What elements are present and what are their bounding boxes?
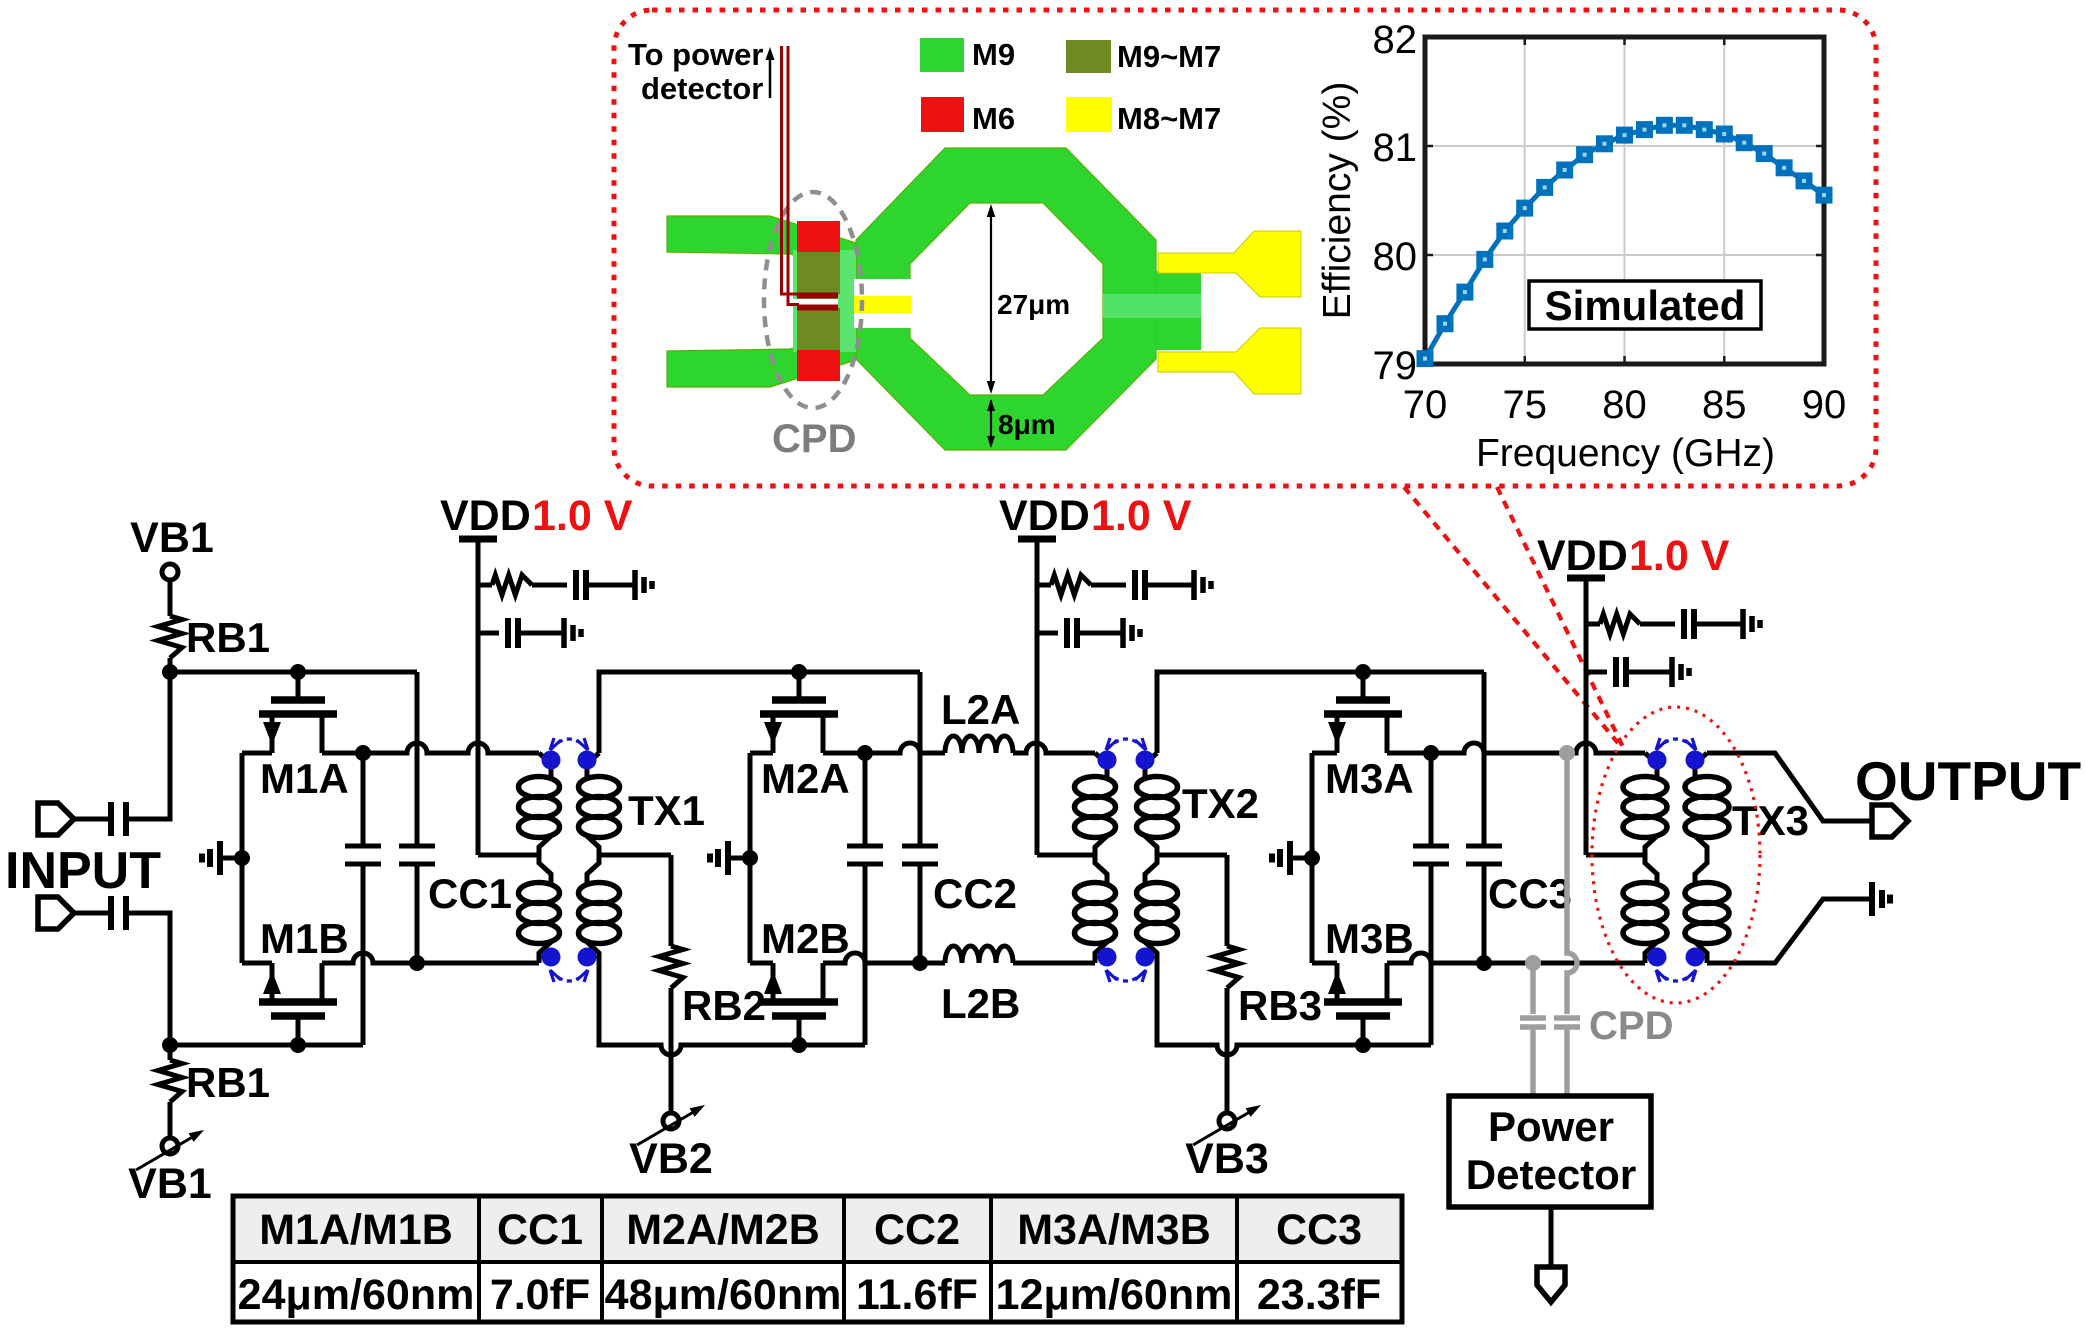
power detector box	[1449, 1096, 1651, 1207]
ground TX1 secondary bias	[730, 856, 750, 861]
node gate rail stage1 top	[162, 664, 178, 680]
svg-text:detector: detector	[641, 71, 763, 106]
svg-text:23.3fF: 23.3fF	[1257, 1271, 1381, 1319]
wire RB1 bottom to VB1	[168, 1102, 173, 1138]
layout green feed arm upper	[667, 216, 856, 296]
svg-text:90: 90	[1802, 383, 1847, 427]
port VB1 top circle	[162, 564, 178, 580]
svg-text:CPD: CPD	[772, 417, 856, 461]
wire L2A to TX2 primary	[1013, 743, 1095, 753]
resistor RB1 bottom	[158, 1060, 182, 1102]
wire source bus	[240, 753, 245, 963]
svg-text:70: 70	[1403, 383, 1448, 427]
port VB3 variable	[1219, 1113, 1235, 1129]
svg-text:M3A/M3B: M3A/M3B	[1017, 1206, 1211, 1254]
svg-text:12μm/60nm: 12μm/60nm	[996, 1271, 1233, 1319]
legend M8~M7 swatch	[1066, 97, 1112, 132]
wire TX2 secondary center tap	[1157, 853, 1227, 858]
wire VDD3 to TX3 center tap	[1584, 672, 1589, 855]
svg-text:48μm/60nm: 48μm/60nm	[605, 1271, 842, 1319]
plot gridlines	[1524, 37, 1526, 364]
node drain rail CC1 right bottom	[416, 671, 418, 673]
resistor RB1 top	[158, 616, 182, 658]
svg-text:Detector: Detector	[1466, 1151, 1636, 1198]
inductor L2B	[945, 946, 1013, 963]
svg-text:27μm: 27μm	[997, 289, 1070, 320]
svg-text:1.0 V: 1.0 V	[532, 492, 633, 540]
dimension arrow 8um	[990, 396, 992, 446]
port input plus	[38, 803, 74, 835]
svg-text:INPUT: INPUT	[5, 842, 161, 900]
wire TX3 secondary top to output port	[1707, 753, 1872, 821]
svg-text:1.0 V: 1.0 V	[1629, 532, 1730, 580]
transformer TX2 coupling arrow bottom	[1107, 971, 1145, 981]
layout olive via stack upper M9~M7	[797, 252, 840, 294]
legend M9~M7 swatch	[1066, 40, 1111, 73]
transformer TX3 secondary winding	[1695, 753, 1707, 778]
svg-text:RB1: RB1	[186, 614, 270, 661]
wire input minus to gate node	[126, 913, 170, 1045]
resistor RB2	[669, 855, 674, 946]
transformer TX1 primary winding	[539, 753, 551, 778]
wire drain rail bottom	[823, 953, 945, 963]
capacitor CC3 left	[1429, 753, 1434, 846]
transistor M1A	[296, 672, 301, 700]
wire TX2 secondary bottom to stage3 gate rail	[1157, 963, 1431, 1055]
wire drain rail top	[322, 743, 539, 753]
transistor M1B	[296, 1016, 301, 1045]
power VDD2 symbol and decoupling	[1018, 536, 1056, 543]
capacitor CPD right	[1554, 1015, 1580, 1021]
dimension arrow 27um	[990, 208, 992, 390]
node CPD tap on drain rail top	[1559, 745, 1575, 761]
svg-text:11.6fF: 11.6fF	[856, 1271, 978, 1319]
layout yellow underpass strip	[854, 296, 911, 313]
wire VB1 to RB1 top	[168, 580, 173, 616]
svg-text:RB2: RB2	[682, 982, 766, 1029]
transformer TX1 polarity dots	[542, 751, 561, 770]
wire VDD2 to TX2 center tap	[1035, 633, 1040, 855]
port input minus	[38, 897, 74, 929]
power VDD1 symbol and decoupling	[459, 536, 497, 543]
wire TX3 primary center tap to VDD3	[1586, 853, 1645, 858]
table device sizes	[233, 1196, 1402, 1262]
ground source bus	[730, 856, 750, 861]
layout red M6 plate lower	[797, 350, 840, 381]
transformer TX1 coupling arrow bottom	[551, 971, 587, 981]
node CPD tap on drain rail bottom	[1525, 955, 1541, 971]
wire L2B to TX2 primary	[1013, 961, 1095, 966]
svg-text:7.0fF: 7.0fF	[490, 1271, 590, 1319]
resistor RB3	[1225, 855, 1230, 946]
svg-text:M1B: M1B	[260, 915, 349, 962]
svg-text:M2A: M2A	[761, 755, 850, 802]
svg-text:82: 82	[1373, 18, 1418, 62]
svg-text:85: 85	[1702, 383, 1747, 427]
layout light green output strip	[1103, 294, 1201, 318]
svg-text:M2B: M2B	[761, 915, 850, 962]
svg-text:M1A/M1B: M1A/M1B	[259, 1206, 453, 1254]
svg-text:TX1: TX1	[628, 787, 705, 834]
wire TX3 secondary bottom to ground	[1707, 899, 1850, 963]
capacitor CPD left	[1520, 1015, 1546, 1021]
transformer TX2 secondary winding	[1145, 753, 1157, 778]
transformer TX3 polarity dots	[1648, 751, 1667, 770]
wire TX1 secondary center tap	[599, 853, 671, 858]
transformer TX2 primary winding	[1095, 753, 1107, 778]
svg-text:79: 79	[1373, 344, 1418, 388]
svg-text:To power: To power	[628, 37, 763, 72]
svg-text:CC3: CC3	[1488, 870, 1572, 917]
transformer TX3 coupling arrow bottom	[1657, 971, 1695, 981]
svg-text:75: 75	[1503, 383, 1548, 427]
plot legend Simulated box	[1529, 281, 1761, 329]
wire input plus to cap	[74, 817, 109, 822]
wire TX2 secondary top to stage3 gate rail	[1157, 672, 1484, 753]
svg-text:81: 81	[1373, 126, 1418, 170]
layout white isolation slots	[854, 279, 912, 296]
transformer TX2 coupling arrow top	[1107, 739, 1145, 749]
capacitor CC3 right	[1482, 672, 1487, 846]
node M1A gate stub	[290, 664, 306, 680]
legend M6 swatch	[921, 97, 964, 132]
capacitor CC1 left	[361, 753, 366, 846]
svg-text:80: 80	[1602, 383, 1647, 427]
plot curve markers	[1417, 350, 1434, 367]
node stage2 gate stubs	[791, 664, 807, 680]
svg-text:Efficiency (%): Efficiency (%)	[1316, 82, 1359, 320]
ground source bus	[1292, 856, 1312, 861]
wire dark red sense lines	[782, 46, 800, 294]
layout red M6 plate upper	[797, 221, 840, 252]
legend M9 swatch	[920, 38, 964, 72]
svg-text:VB1: VB1	[128, 1160, 212, 1208]
node stage3 gate stubs	[1355, 664, 1371, 680]
wire gate rail stage1 bottom	[170, 1043, 363, 1048]
layout olive via stack lower M9~M7	[797, 308, 840, 350]
transistor M2A	[797, 672, 802, 700]
layout light green underpass column	[793, 250, 856, 352]
wire input minus to cap	[74, 911, 109, 916]
red dashed pointer line left	[1404, 487, 1618, 743]
wire gate rail stage1 top	[170, 670, 417, 675]
svg-text:Power: Power	[1488, 1103, 1614, 1150]
node M1B gate stub	[290, 1037, 306, 1053]
svg-text:M2A/M2B: M2A/M2B	[626, 1206, 820, 1254]
port VB2 variable	[663, 1113, 679, 1129]
svg-text:RB3: RB3	[1238, 982, 1322, 1029]
wire VDD1 to TX1 center tap	[476, 633, 481, 855]
wire drain rail top	[823, 743, 945, 753]
wire drain rail top	[1387, 743, 1645, 753]
svg-text:M6: M6	[972, 101, 1015, 136]
svg-text:CC1: CC1	[497, 1206, 583, 1254]
svg-text:VB2: VB2	[629, 1135, 713, 1183]
layout yellow output lead upper M8~M7	[1158, 231, 1301, 297]
wire source bus	[748, 753, 753, 963]
port VB1 bottom variable	[162, 1138, 178, 1154]
wire TX1 primary center tap to VDD1	[478, 853, 539, 858]
svg-text:Frequency (GHz): Frequency (GHz)	[1476, 432, 1775, 475]
layout right green block	[1156, 271, 1201, 350]
transformer TX2 polarity dots	[1098, 751, 1117, 770]
wire TX2 primary center tap to VDD2	[1037, 853, 1095, 858]
wire drain rail bottom	[1387, 953, 1645, 963]
svg-text:VDD: VDD	[999, 492, 1090, 540]
svg-text:M8~M7: M8~M7	[1117, 101, 1221, 136]
svg-text:M9: M9	[972, 37, 1015, 72]
port power detector down	[1537, 1267, 1565, 1302]
node gate rail stage1 bottom	[162, 1037, 178, 1053]
wire drain rail bottom	[322, 953, 539, 963]
svg-text:1.0 V: 1.0 V	[1091, 492, 1192, 540]
red dotted ellipse around TX3	[1592, 707, 1760, 1003]
transformer TX3 coupling arrow top	[1657, 739, 1695, 749]
capacitor CC1 right	[415, 672, 420, 846]
svg-text:CC2: CC2	[933, 870, 1017, 917]
wire CPD sense line right	[1567, 753, 1577, 1014]
ground output return	[1850, 897, 1870, 902]
wire source bus	[1310, 753, 1315, 963]
svg-text:CC3: CC3	[1276, 1206, 1362, 1254]
svg-text:L2A: L2A	[941, 686, 1020, 733]
layout thin red M6 traces	[797, 293, 838, 299]
wire input plus to gate node	[126, 672, 170, 819]
transistor M3A	[1361, 672, 1366, 700]
svg-text:CC1: CC1	[428, 870, 512, 917]
svg-text:M1A: M1A	[260, 755, 349, 802]
capacitor CC2 left	[863, 753, 868, 846]
svg-text:8μm: 8μm	[998, 409, 1056, 440]
transistor M2B	[797, 1016, 802, 1045]
wire node to RB1 bottom	[168, 1045, 173, 1060]
layout yellow output lead lower M8~M7	[1158, 328, 1301, 394]
transformer TX1 secondary winding	[587, 753, 599, 778]
inductor L2A	[945, 736, 1013, 753]
svg-text:CPD: CPD	[1589, 1004, 1673, 1048]
plot axes box	[1425, 37, 1824, 364]
inset dashed border frame	[614, 10, 1876, 486]
svg-text:M3A: M3A	[1325, 755, 1414, 802]
red dashed pointer line right	[1497, 487, 1624, 749]
svg-text:TX2: TX2	[1182, 780, 1259, 827]
transformer TX1 coupling arrow top	[551, 739, 587, 749]
svg-text:L2B: L2B	[941, 980, 1020, 1027]
transformer TX3 primary winding	[1645, 753, 1657, 778]
svg-text:Simulated: Simulated	[1545, 282, 1746, 329]
svg-text:VDD: VDD	[440, 492, 531, 540]
ground source bus	[222, 856, 242, 861]
layout green feed arm lower	[667, 307, 856, 387]
wire power detector output	[1549, 1207, 1554, 1267]
power VDD3 symbol and decoupling	[1567, 575, 1605, 582]
layout green octagon ring M9	[856, 148, 1156, 450]
capacitor input coupling top	[108, 802, 114, 836]
svg-text:TX3: TX3	[1732, 797, 1809, 844]
svg-text:VDD: VDD	[1537, 532, 1628, 580]
wire TX1 secondary top to stage2 gate rail	[599, 672, 920, 753]
transistor M3B	[1361, 1016, 1366, 1045]
svg-text:RB1: RB1	[186, 1059, 270, 1106]
svg-text:80: 80	[1373, 235, 1418, 279]
plot curve simulated efficiency	[1425, 125, 1824, 358]
layout CPD dashed ellipse	[764, 192, 862, 408]
svg-text:M3B: M3B	[1325, 915, 1414, 962]
arrow to power detector	[769, 56, 772, 98]
wire RB1 to gate rail node	[168, 658, 173, 672]
svg-text:VB1: VB1	[130, 514, 214, 562]
svg-text:CC2: CC2	[874, 1206, 960, 1254]
svg-text:M9~M7: M9~M7	[1117, 39, 1221, 74]
port OUTPUT	[1872, 805, 1908, 837]
wire TX1 secondary bottom to stage2 gate rail	[599, 963, 865, 1055]
capacitor CC2 right	[918, 672, 923, 846]
svg-text:OUTPUT: OUTPUT	[1855, 750, 2081, 812]
svg-text:24μm/60nm: 24μm/60nm	[238, 1271, 475, 1319]
svg-text:VB3: VB3	[1185, 1135, 1269, 1183]
wire CPD sense line left	[1530, 963, 1536, 1014]
capacitor input coupling bottom	[108, 896, 114, 930]
